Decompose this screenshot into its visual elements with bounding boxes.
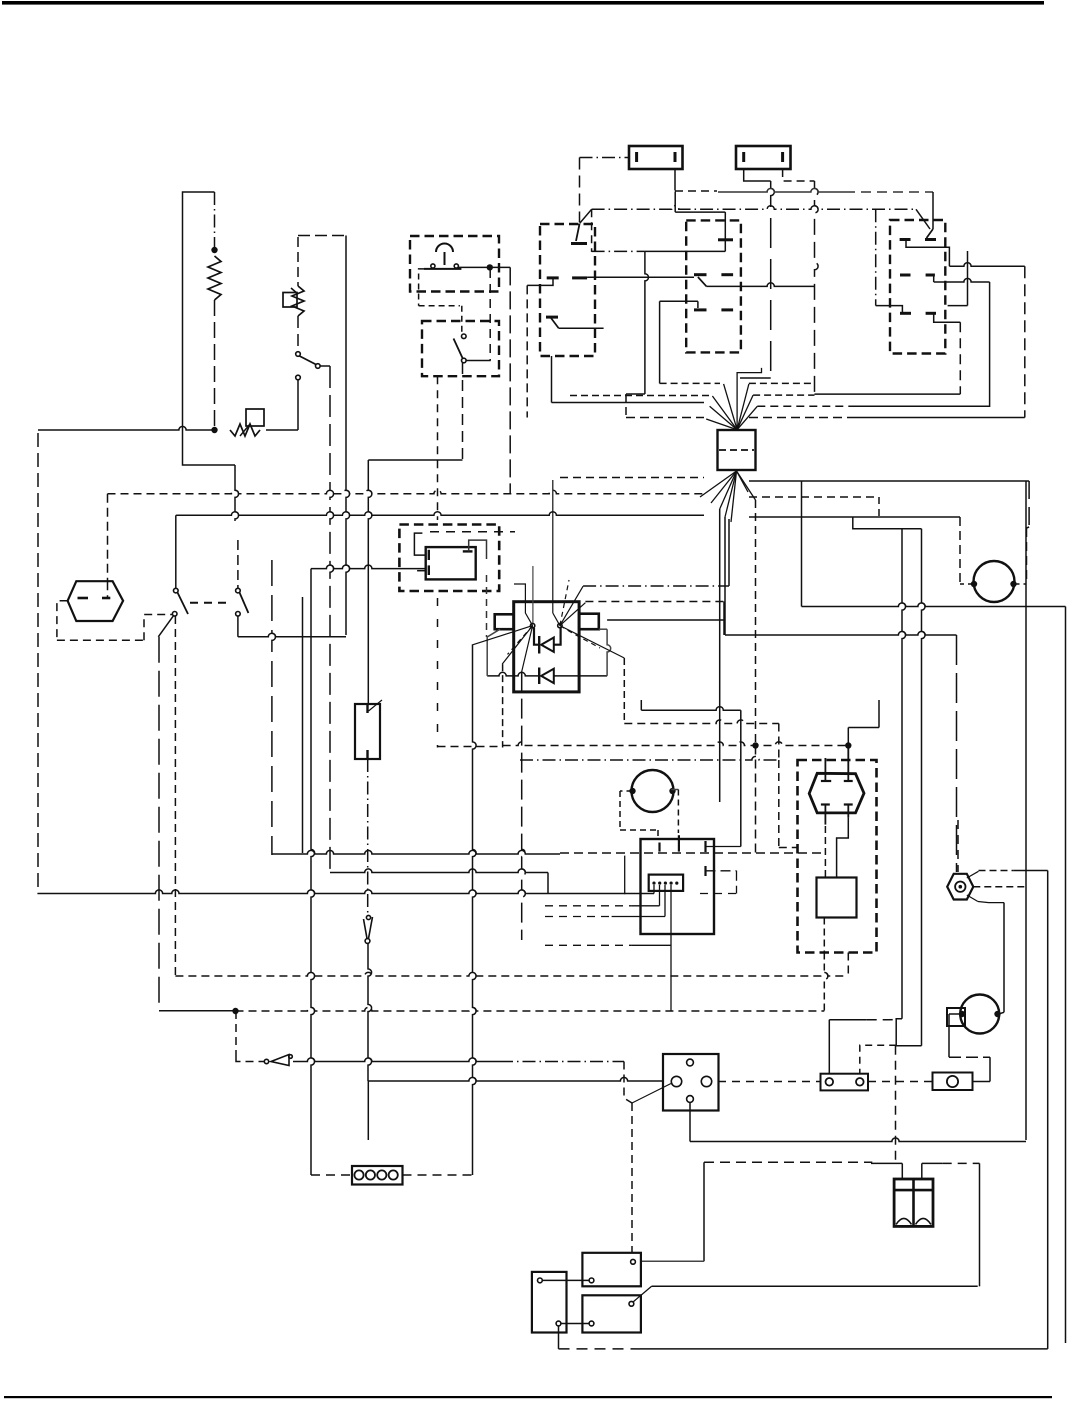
- wire x779 drop: [778, 760, 780, 848]
- wire net y493 right: [749, 496, 879, 498]
- wire y383 right dash: [749, 382, 814, 384]
- wire U1 rn dashdiag: [560, 626, 600, 648]
- fuse F4: [933, 1073, 973, 1091]
- wire y620 link: [607, 619, 724, 621]
- switch S3 contact bottom: [172, 612, 177, 617]
- wire A1 right pin1: [706, 841, 741, 852]
- switch box B2: [422, 321, 499, 376]
- node M3 right: [994, 1011, 1000, 1017]
- wire A1 w3: [545, 885, 665, 917]
- wire H2-L1 right: [837, 818, 849, 878]
- wire y601 dashed: [585, 601, 724, 603]
- wire U1 right gray: [599, 629, 611, 676]
- diode D1: [534, 628, 561, 654]
- wire F1 feed: [580, 157, 630, 159]
- contact B4 r3l: [694, 308, 707, 311]
- switch S4 blade: [240, 593, 249, 614]
- wire S3 bottom down: [174, 616, 176, 976]
- wire y1057 link: [949, 1056, 990, 1058]
- wire net y515 right: [749, 516, 960, 518]
- resistor R1: [208, 256, 221, 300]
- breaker VR1: [283, 286, 304, 316]
- wire x1004 down: [1003, 903, 1005, 1013]
- wire U1 rn ln2: [560, 603, 586, 626]
- wire FL1 to S1: [266, 429, 298, 431]
- solenoid L1: [817, 878, 857, 918]
- wire A1 right pin2: [706, 871, 737, 894]
- wire R1 lower lead: [214, 300, 216, 428]
- switch B3 blade: [571, 224, 587, 244]
- contact H1 ticks: [78, 597, 111, 600]
- node U1 right: [558, 623, 562, 627]
- switch S4 contact bottom: [236, 612, 241, 617]
- wire B5 r3r out: [934, 313, 961, 322]
- contact B3 mid-left: [547, 276, 559, 279]
- switch S2 contact top: [462, 334, 467, 339]
- wire x182 elbow to x235: [183, 430, 236, 465]
- wire net y417: [626, 417, 1025, 419]
- wire B3 diag: [580, 209, 592, 223]
- switch S1 blade: [300, 356, 317, 365]
- wire x437 drop: [437, 376, 439, 747]
- wire y1348 rail: [559, 1348, 1048, 1350]
- wire U1 rn ln1: [560, 586, 583, 625]
- wire x778 down: [778, 724, 780, 761]
- node M2 right: [669, 788, 675, 794]
- contact B5 r3r: [926, 312, 936, 315]
- wire F3-F4 dash: [868, 1081, 933, 1083]
- terminal M3 tab: [947, 1008, 965, 1026]
- switch S1 contact top: [296, 352, 301, 357]
- wire S3 top feed: [176, 515, 178, 588]
- contact B5 r1l: [900, 238, 911, 241]
- relay K3: [582, 1253, 641, 1287]
- wire x460 to B2: [461, 306, 463, 334]
- switch S3 contact top: [174, 588, 179, 593]
- wire B3 low out: [559, 327, 604, 329]
- node dot R1 bottom: [211, 427, 217, 433]
- wire y528 branch: [853, 517, 922, 529]
- wire U1 rn up: [553, 480, 560, 626]
- wire net y477 dashed: [560, 477, 704, 479]
- wire starter right lead: [999, 1012, 1005, 1014]
- wire x719 down: [719, 509, 721, 802]
- wire x502 down: [502, 664, 504, 747]
- wire y710 bar: [641, 707, 741, 711]
- gauge G1: [974, 561, 1015, 602]
- wire D2 row: [487, 672, 607, 676]
- wire F1 right down: [674, 169, 676, 191]
- wire x848 to hex: [847, 728, 849, 773]
- clutch M2: [632, 770, 674, 812]
- wire x1047 down: [1047, 871, 1049, 1349]
- wire x990 drop: [989, 1057, 991, 1081]
- wire y870 right: [979, 870, 1048, 872]
- wire L1 bottom: [823, 918, 825, 953]
- wire P1 top feed: [957, 760, 959, 872]
- wire x755 down: [755, 500, 757, 746]
- wire S7 pointer: [632, 1084, 671, 1104]
- wire P1 low jog: [978, 902, 1004, 903]
- wire x591 link: [591, 209, 593, 252]
- switch S3 blade: [178, 593, 189, 615]
- wire B4 low feed: [660, 301, 698, 383]
- wire y394 B5: [815, 393, 961, 395]
- pin K4 a: [589, 1321, 594, 1326]
- starter M3: [960, 995, 999, 1034]
- wire B5 diag: [916, 209, 930, 229]
- wire top-left bracket: [183, 192, 215, 430]
- wire x346 down: [346, 236, 350, 636]
- wire A1 right pin2b: [704, 866, 706, 876]
- wire BT1 left net: [641, 1162, 872, 1261]
- wire x770 elbow: [740, 377, 771, 379]
- wire y235 link: [298, 235, 346, 237]
- pin K4 b: [629, 1301, 634, 1306]
- pushbutton PB1 contacts: [424, 264, 461, 269]
- node dot R1 top: [211, 247, 217, 253]
- wire y209 dashdot: [592, 206, 916, 210]
- wire y251 dash: [592, 250, 726, 252]
- wire PB1 left drop: [419, 269, 460, 306]
- wire A1 w2: [545, 885, 660, 906]
- wire S4 top feed: [237, 540, 239, 588]
- wire P1 pointer down: [967, 895, 978, 902]
- wire U1 rn diag: [560, 626, 624, 658]
- wire x848 up: [847, 953, 849, 977]
- contact B4 top: [718, 238, 733, 241]
- wire ign-F3 dash: [718, 1081, 821, 1083]
- wire y395 right dash: [753, 394, 814, 396]
- wire B3 low blade: [551, 318, 559, 328]
- wire y893 rail: [38, 890, 737, 894]
- connector X2: [352, 1166, 403, 1185]
- switch box B4: [686, 220, 741, 352]
- switch B4 blade: [698, 277, 707, 286]
- wire K1 left bracket: [414, 533, 425, 555]
- wire B3 bottom down: [551, 356, 553, 403]
- wire A1 w1 up: [624, 856, 626, 895]
- wire y760 dashdot: [520, 756, 779, 760]
- contact K2 top: [366, 704, 368, 713]
- wire x779 into box: [779, 847, 798, 849]
- wire y744 dashed: [503, 742, 849, 746]
- contact B4 r3r: [721, 308, 733, 311]
- wire H2-L1 left: [824, 826, 826, 878]
- wire x960 down: [959, 322, 961, 394]
- pushbutton PB1 cap: [436, 244, 453, 266]
- node M3 left: [959, 1011, 965, 1017]
- wire M2 left bracket: [620, 791, 658, 839]
- switch S6: [264, 1055, 292, 1066]
- wire K1 top dash: [430, 531, 515, 533]
- wire x740 down: [740, 710, 742, 846]
- wire y277 B3-B4: [587, 276, 694, 278]
- wire B4 mid out: [707, 283, 815, 287]
- wire y568 feed: [311, 565, 426, 571]
- wire B5 r2r out: [934, 275, 990, 282]
- contact H2 tr: [844, 748, 853, 781]
- wire x848 bracket: [848, 727, 879, 729]
- wire U1 dashdiag left: [508, 626, 533, 655]
- node dot x755: [752, 742, 758, 748]
- wire y855 long: [272, 850, 824, 854]
- wire H1 loop: [57, 601, 172, 641]
- wire X2 left: [311, 1174, 352, 1176]
- switch box B1: [410, 236, 499, 292]
- switch B5 blade: [927, 229, 934, 238]
- wire P1 dash right: [973, 886, 1026, 888]
- wire K1 right link: [469, 540, 487, 637]
- wire x1024 up: [1024, 266, 1026, 417]
- wire x644 down: [645, 251, 649, 394]
- wire x311 down: [311, 597, 315, 1175]
- wire y192 main: [718, 188, 933, 192]
- wire x490 PB1-to-S2: [489, 269, 491, 361]
- wire F3 right feed: [860, 1019, 902, 1074]
- wire y976 dashed: [175, 972, 848, 976]
- wire x902 down: [902, 529, 906, 1019]
- wire x770 down: [771, 181, 775, 378]
- PTO box B6: [798, 760, 877, 953]
- contact H2 br: [844, 805, 853, 818]
- wire x107 drop: [107, 494, 109, 581]
- wire X1 top fan: [706, 368, 761, 430]
- wire S2 bottom down: [462, 363, 464, 460]
- wire S1 bottom to FL1: [297, 380, 299, 430]
- wire BT1 right terminal: [922, 1163, 980, 1179]
- wire x368 tail: [367, 1081, 369, 1140]
- wire y586 dashdot: [583, 585, 729, 587]
- contact B4 r2l: [694, 273, 707, 276]
- contact H2 bl: [821, 805, 830, 825]
- wire y1286 rail: [652, 1285, 978, 1287]
- wire net y480 solid: [749, 480, 1029, 482]
- wire K2 bottom lead: [367, 759, 369, 914]
- contact B5 r1r: [925, 238, 936, 241]
- switch S2 blade: [454, 339, 463, 359]
- wire relayB diag: [633, 1286, 652, 1302]
- contact B3 low: [546, 316, 558, 319]
- contact K1 ticks: [429, 550, 473, 575]
- horn H1: [68, 581, 124, 621]
- wire y1061 solid: [293, 1058, 500, 1062]
- wire y395 left dash: [570, 395, 712, 397]
- wire x1065 down: [1065, 607, 1067, 1344]
- wire F2 right bracket: [783, 169, 815, 181]
- node U1 left: [530, 623, 534, 627]
- wire x548 drop: [547, 873, 549, 895]
- wire B3 top feed: [579, 158, 581, 223]
- wire A1 w4: [545, 885, 671, 1011]
- contact A1 top pin1: [658, 843, 660, 852]
- module box M1: [399, 525, 499, 592]
- wire x921 down: [922, 529, 926, 1046]
- node G1 left: [971, 581, 977, 587]
- wire x724 mid: [723, 602, 725, 636]
- wire PB1 out: [458, 266, 489, 268]
- wire P1 pointer up: [967, 871, 979, 878]
- wire x311 hook: [310, 569, 312, 597]
- fuse F2: [736, 146, 791, 169]
- wire PB1 dot right-down: [490, 266, 510, 268]
- pin K5 a: [538, 1278, 543, 1283]
- wire x895 ground: [895, 1046, 897, 1163]
- wire VR1 to S1 top: [297, 316, 299, 351]
- wire x824 below: [824, 953, 828, 1012]
- wire y1045 link: [896, 1045, 922, 1047]
- switch S5 blades: [364, 917, 373, 939]
- ignition S7 box: [663, 1054, 719, 1111]
- wire x527 down: [526, 285, 528, 417]
- wire F4 to x990: [973, 1081, 991, 1083]
- wire x626 down: [625, 394, 627, 418]
- switch S1 contact right: [316, 364, 321, 369]
- contact B5 r2r: [926, 274, 935, 277]
- relay box B3: [540, 224, 595, 356]
- diode module U1: [514, 602, 579, 692]
- fusible link FL1: [230, 409, 264, 436]
- wire B3 mid-left: [527, 278, 553, 286]
- wire F3 left feed: [829, 1020, 896, 1074]
- wire U1 ln fan3: [522, 626, 533, 672]
- connector A1 inner: [649, 875, 683, 891]
- wire S3 diag: [158, 616, 173, 637]
- wire G1 left lead: [960, 583, 974, 585]
- wire y1141 rail: [690, 1138, 1026, 1142]
- wire y872 rail: [330, 869, 548, 873]
- wire y1061 dashdot: [500, 1061, 624, 1063]
- wire left dashed vertical x38: [37, 433, 39, 894]
- pin K3 b: [631, 1259, 636, 1264]
- wire VR1 top lead: [297, 237, 299, 286]
- wire S6 feed: [236, 1011, 264, 1062]
- switch gang link: [190, 602, 230, 604]
- wire U1 ln up1: [514, 584, 533, 626]
- wire y394 left: [626, 393, 645, 395]
- page top rule: [2, 1, 1044, 5]
- contact A1 top pin2: [678, 835, 680, 851]
- wire x330 down: [330, 366, 334, 873]
- relay K4: [582, 1295, 641, 1332]
- wire G1 right lead: [1014, 527, 1030, 584]
- page bottom rule: [4, 1396, 1052, 1398]
- wire x158 down: [158, 637, 160, 1010]
- switch S1 contact bottom: [296, 375, 301, 380]
- node M2 left: [629, 788, 635, 794]
- wire M3 left lead: [949, 1014, 962, 1057]
- fuse F3: [821, 1074, 869, 1091]
- wire x472 down: [473, 645, 477, 1175]
- wire x271 drop: [272, 560, 276, 855]
- wire A1 w1: [653, 885, 655, 894]
- fuse F1: [629, 146, 683, 169]
- wire net y515: [178, 512, 705, 516]
- wire x879 hook: [878, 497, 880, 728]
- wire F2 left bracket: [744, 169, 771, 181]
- wire U1 left gray: [487, 629, 500, 676]
- wire x989 down: [989, 282, 991, 407]
- wire x875 drop: [875, 209, 877, 305]
- wire K5-K4: [561, 1323, 589, 1325]
- relay K1: [426, 547, 476, 579]
- wire x235 down: [235, 465, 239, 521]
- wire H1 top feed: [107, 581, 109, 598]
- wire y722 dashed: [624, 720, 779, 724]
- switch S4 contact top: [236, 588, 241, 593]
- wire B5 r3l feed: [876, 306, 903, 314]
- wire y383 dash: [660, 382, 720, 384]
- pins A1 dots: [652, 882, 678, 885]
- relay K5: [532, 1272, 567, 1333]
- wire U1 ln up2: [532, 566, 534, 623]
- wire y635 right: [725, 631, 957, 635]
- wire x814 down: [815, 181, 819, 394]
- ignition S7 pins: [671, 1059, 711, 1102]
- wire y1081 right: [368, 1077, 663, 1081]
- wire y606 long: [802, 481, 1066, 607]
- wire S7 bottom drop: [689, 1103, 691, 1142]
- wire x641 stub: [640, 700, 642, 710]
- wire y430 left: [38, 426, 215, 430]
- node dot y1010: [232, 1008, 238, 1014]
- wire U1 ln fan1: [472, 626, 533, 646]
- wire net y402: [552, 403, 990, 407]
- PTO hexagon H2: [809, 773, 864, 813]
- wire B5 r1 return: [948, 251, 968, 306]
- pin K5 b: [556, 1321, 561, 1326]
- wire x755 lower: [755, 746, 757, 854]
- wire S2 out right: [466, 360, 491, 362]
- wire x302 down: [302, 597, 304, 853]
- contact H2 tl: [821, 758, 831, 781]
- wire x1029 down: [1028, 481, 1030, 527]
- wire S1 right to x330: [320, 365, 330, 367]
- terminal U1 right tab: [579, 614, 599, 630]
- wire R1 upper lead: [214, 192, 216, 250]
- wire U1 rn updash: [560, 580, 569, 626]
- wire x1026 down: [1025, 481, 1027, 1140]
- switch S5 bottom: [365, 939, 370, 944]
- contact K2 bottom: [366, 750, 368, 759]
- wire x724 down: [724, 517, 726, 635]
- contact B4 r2r: [721, 273, 733, 276]
- wire x510 down: [509, 267, 511, 493]
- wire K5 ground drop: [558, 1326, 560, 1349]
- spark plug P1: [947, 874, 973, 900]
- wire x729 down: [728, 519, 730, 586]
- wire x977 down: [979, 1163, 981, 1286]
- wire B5 r1 loop: [906, 240, 949, 267]
- wire x956 down: [956, 635, 958, 872]
- wire net y493 dashed: [108, 490, 705, 494]
- wire U1 ln fan2: [502, 626, 532, 665]
- wire y266 branch: [949, 263, 1024, 267]
- connector X1: [718, 430, 756, 470]
- switch box B5: [890, 220, 945, 354]
- wire y747 dashed: [438, 746, 503, 748]
- wire x368 down: [368, 460, 372, 704]
- wire y460 jog: [368, 459, 462, 461]
- pin K3 a: [589, 1278, 594, 1283]
- wire x624 jog: [624, 1062, 632, 1104]
- diode D2: [539, 668, 554, 685]
- wire K5-K3: [543, 1279, 590, 1281]
- switch S2 contact bottom: [462, 358, 467, 363]
- switch S5 top: [366, 915, 370, 919]
- wire M2 right bracket: [671, 790, 678, 834]
- wire X2 right: [403, 1174, 473, 1176]
